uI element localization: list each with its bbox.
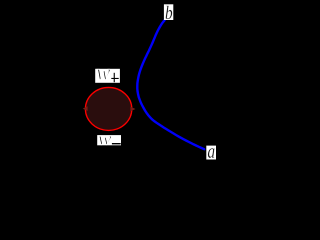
label w+ plus vertical bar <box>114 73 115 82</box>
label a glyph <box>208 148 215 158</box>
label w- glyph w <box>98 136 111 144</box>
label w- box <box>97 135 121 145</box>
label a box <box>206 146 216 160</box>
label b glyph <box>166 6 173 19</box>
blue contour from b to a <box>137 20 204 149</box>
label w+ box <box>95 69 120 83</box>
label w- minus bar <box>112 143 121 144</box>
label b box <box>164 4 173 20</box>
label w+ plus horizontal bar <box>111 78 118 79</box>
disk w (filled ellipse, red boundary) <box>85 87 131 130</box>
label w+ glyph w <box>97 69 110 80</box>
orientation arrow left <box>83 106 88 111</box>
orientation arrow right <box>130 107 135 112</box>
